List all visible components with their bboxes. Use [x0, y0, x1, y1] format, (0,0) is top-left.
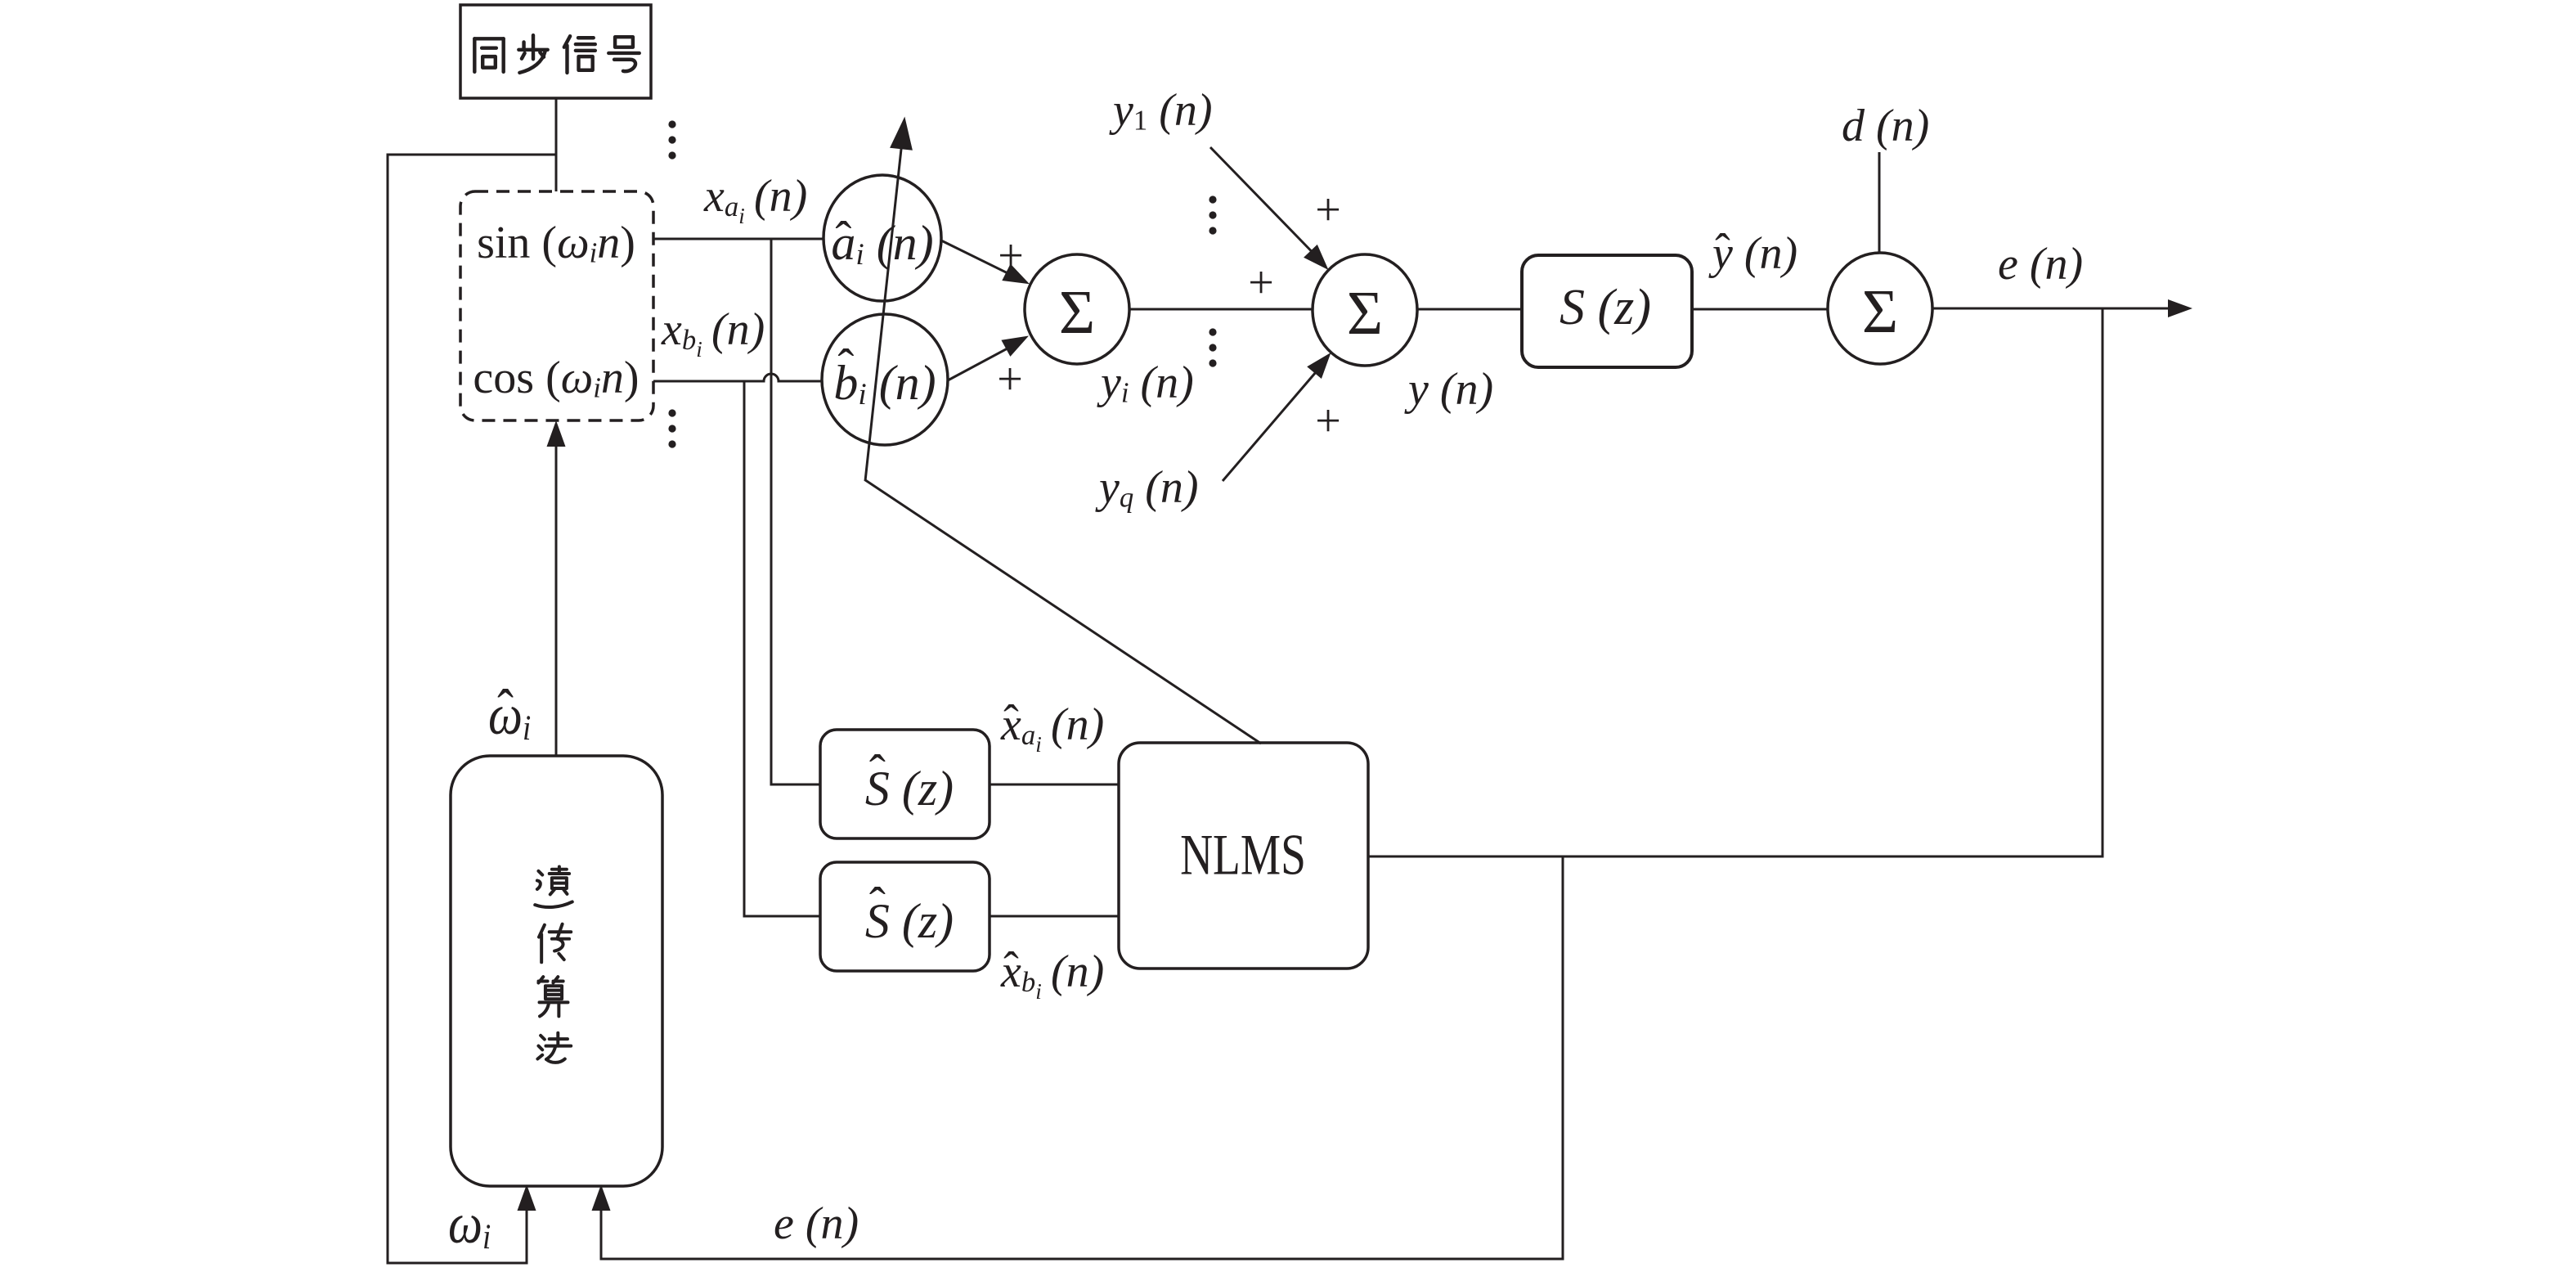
label: d(n)	[1842, 103, 1929, 149]
label: sin(omega_i n)	[477, 220, 635, 266]
label: e(n) output	[1998, 241, 2083, 287]
dots: channels below summer2 input	[1209, 328, 1216, 335]
label: omega_i	[448, 1196, 491, 1253]
arrowhead: a_i into summer1	[1002, 264, 1030, 285]
wire: omega-hat from GA box up to dashed box	[555, 443, 558, 756]
wire: coefficient update through circles	[865, 147, 901, 482]
wire: y_q arrow line	[1223, 372, 1316, 481]
label: x_b_i(n)	[662, 307, 765, 353]
label: S(z)	[1560, 282, 1651, 333]
label: sigma in summer2	[1347, 282, 1383, 344]
block: dashed oscillator box (sin/cos generator)	[460, 191, 653, 420]
label: plus at summer1 upper	[998, 233, 1024, 279]
wire: Shat upper output to NLMS	[990, 784, 1120, 786]
label: plus below summer2	[1315, 398, 1341, 444]
label: y(n)	[1408, 366, 1493, 412]
label: b-hat_i(n) in circle	[833, 358, 936, 407]
arrowhead: b_i into summer1	[1001, 336, 1029, 357]
wire: error output	[1932, 308, 2169, 310]
wire: error feedback into NLMS	[1367, 856, 2104, 858]
label: S-hat(z) lower	[865, 897, 954, 946]
wire: S(z) to summer3	[1692, 308, 1829, 311]
label: NLMS	[1180, 827, 1306, 885]
block: secondary path S(z)	[1522, 255, 1692, 367]
label: e(n) bottom	[774, 1201, 859, 1247]
wire: branch tee toward omega_i feedback	[388, 154, 558, 156]
wire: summer2 to S(z)	[1417, 308, 1522, 311]
label: y_i(n)	[1101, 360, 1194, 406]
wire: cos output x_b with hop	[653, 374, 823, 381]
wire: omega_i rise into GA box	[526, 1206, 528, 1265]
summer sigma-1 (y_i)	[1025, 254, 1129, 364]
label: plus at summer1 lower	[997, 357, 1023, 402]
wire: error rise into GA box	[600, 1206, 603, 1261]
arrowhead: error into GA box	[592, 1184, 611, 1211]
label: x-hat_b_i(n)	[1001, 949, 1104, 995]
wire: error to GA horizontal	[601, 1258, 1564, 1261]
text: 同步信号 glyphs	[474, 35, 639, 73]
wire: error feedback vertical	[2102, 308, 2104, 858]
arrowhead: y_1 into summer2	[1304, 245, 1328, 270]
wire: NLMS to coefficient update diagonal	[865, 480, 1262, 744]
wire: x_b tap into Shat lower	[743, 915, 822, 918]
arrowhead: y_q into summer2	[1307, 353, 1331, 379]
block: sync-signal box (同步信号)	[460, 5, 651, 98]
wire: x_a tap into Shat upper	[770, 784, 822, 786]
label: y_q(n)	[1099, 465, 1199, 510]
wire: x_b tap vertical	[743, 381, 746, 916]
wire: b_i to summer1	[948, 347, 1010, 380]
wire: a_i to summer1	[941, 240, 1011, 275]
wire: sin output x_a	[653, 238, 824, 240]
label: a-hat_i(n) in circle	[831, 218, 933, 267]
arrowhead: error output	[2168, 299, 2192, 317]
label: S-hat(z) upper	[865, 764, 954, 813]
wire: left vertical omega_i feedback	[387, 154, 389, 1265]
arrowhead: omega-hat into dashed box	[547, 420, 566, 447]
label: cos(omega_i n)	[473, 355, 639, 401]
wire: error to GA vertical	[1562, 856, 1564, 1261]
summer sigma-3 (error)	[1828, 253, 1932, 364]
arrowhead: coefficient update	[890, 117, 913, 151]
dots: channels above dashed box	[668, 120, 675, 128]
label: sigma in summer1	[1059, 281, 1095, 344]
gain multiplier b_i circle	[822, 314, 948, 445]
wire: x_a tap vertical	[770, 239, 773, 784]
wire: sync box down to dashed box	[555, 98, 558, 191]
label: x_a_i(n)	[704, 173, 807, 219]
label: plus left of summer2	[1248, 260, 1274, 306]
wire: summer1 to summer2	[1129, 308, 1313, 311]
label: omega-hat_i	[488, 687, 531, 744]
block: estimated path Shat(z) lower	[820, 862, 990, 971]
gain multiplier a_i circle	[824, 175, 941, 301]
block: genetic algorithm box (遗传算法)	[451, 756, 662, 1186]
label: sigma in summer3	[1862, 281, 1898, 343]
wire: d(n) drop	[1878, 152, 1881, 254]
label: plus above summer2	[1315, 187, 1341, 233]
block: estimated path Shat(z) upper	[820, 730, 990, 838]
label: y-hat(n)	[1712, 231, 1797, 276]
wire: y_1 arrow line	[1210, 147, 1313, 253]
dots: channels above summer2 input	[1209, 196, 1216, 203]
label: y_1(n)	[1113, 88, 1213, 133]
arrowhead: omega_i into GA box	[518, 1184, 536, 1211]
wire: bottom omega_i horizontal	[387, 1262, 527, 1265]
block: NLMS adaptive algorithm	[1119, 743, 1368, 969]
wire: Shat lower output to NLMS	[990, 915, 1120, 918]
dots: channels below dashed box	[668, 409, 675, 416]
text: 遗传算法 glyphs	[535, 867, 572, 1063]
summer sigma-2 (y)	[1313, 254, 1417, 366]
label: x-hat_a_i(n)	[1001, 702, 1104, 748]
